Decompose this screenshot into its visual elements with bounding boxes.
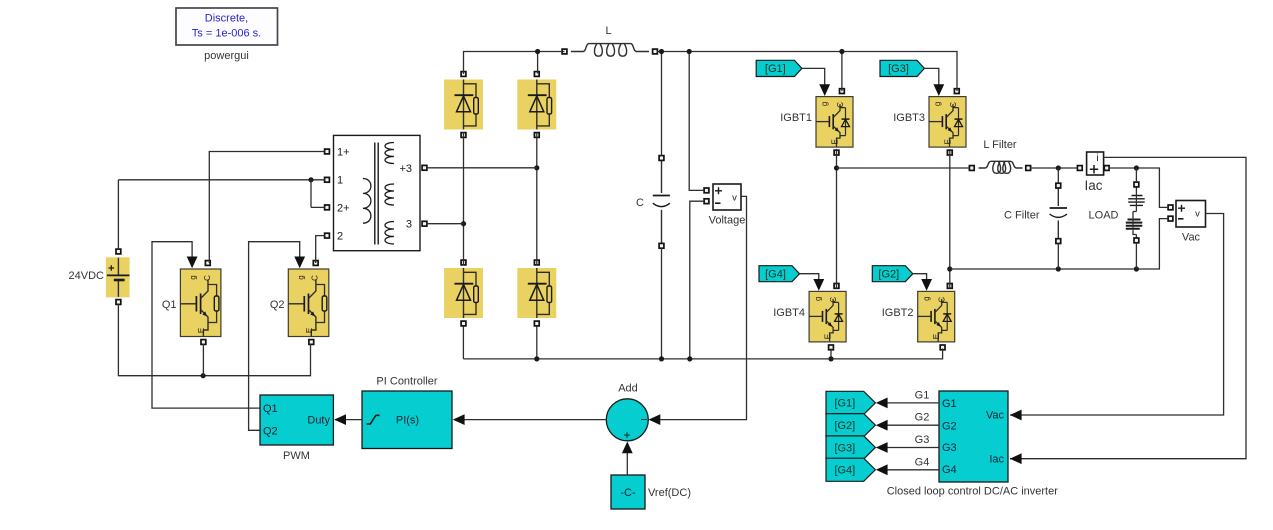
svg-text:i: i	[1096, 153, 1098, 164]
diode D4 (bottom-right of bridge)	[517, 268, 556, 318]
transistor IGBT4	[809, 291, 846, 342]
svg-text:IGBT1: IGBT1	[780, 112, 812, 124]
wire to Voltage + input	[689, 52, 704, 191]
svg-text:PWM: PWM	[283, 450, 310, 462]
wire PWM Q2 gate drive	[249, 242, 300, 431]
wire C Filter bottom riser	[1057, 243, 1059, 269]
PI Controller block	[362, 391, 452, 449]
LOAD bottom port	[1134, 238, 1139, 243]
svg-text:E: E	[823, 334, 832, 339]
svg-text:G1: G1	[942, 398, 957, 410]
transistor IGBT2	[918, 291, 955, 342]
voltage measurement "Voltage"	[713, 184, 741, 210]
svg-text:[G4]: [G4]	[834, 465, 855, 477]
svg-text:LOAD: LOAD	[1089, 210, 1119, 222]
svg-text:Iac: Iac	[1084, 178, 1102, 193]
C Filter top port	[1056, 183, 1061, 188]
svg-text:1+: 1+	[337, 147, 350, 159]
svg-text:[G3]: [G3]	[888, 63, 909, 75]
goto tag [G4]	[826, 458, 875, 481]
svg-text:powergui: powergui	[204, 50, 249, 62]
svg-text:g: g	[296, 275, 305, 279]
powergui block	[176, 8, 278, 45]
capacitor C Filter	[1057, 188, 1059, 206]
constant Vref(DC)	[611, 475, 645, 509]
svg-text:G4: G4	[942, 464, 957, 476]
inductor L	[571, 44, 649, 52]
wire from tag G1 to IGBT1 gate	[802, 68, 825, 93]
wire capacitor C bottom riser	[661, 248, 663, 359]
svg-text:E: E	[943, 139, 952, 144]
transistor Q1 (IGBT block)	[180, 269, 221, 337]
wire bottom DC rail	[463, 327, 942, 359]
transistor Q2 (IGBT block)	[288, 269, 329, 337]
wire leg A: IGBT1 E to IGBT4 C	[836, 149, 838, 289]
junction LOAD top	[1134, 165, 1139, 170]
wire from tag G4 to IGBT4 gate	[800, 274, 819, 288]
wire IGBT4 emitter riser	[830, 349, 832, 359]
wire Add output to PI Controller	[454, 419, 606, 421]
closed loop control DC/AC inverter block	[939, 391, 1008, 482]
wire Voltage - input	[690, 201, 704, 359]
wire C Filter top riser	[1057, 168, 1059, 183]
voltage measurement Vac	[1176, 201, 1206, 228]
svg-text:+3: +3	[399, 163, 412, 175]
goto tag [G1]	[826, 391, 875, 414]
svg-text:[G1]: [G1]	[765, 63, 786, 75]
wire PI Controller to PWM Duty	[335, 419, 362, 421]
junction leg B / output	[947, 266, 952, 271]
svg-text:Discrete,: Discrete,	[205, 13, 248, 25]
wire winding 1+ to Q1 collector	[209, 152, 325, 264]
Q1 E port	[201, 340, 206, 345]
junction leg2 / winding +3	[534, 165, 539, 170]
C bottom port	[659, 243, 664, 248]
port 3	[422, 221, 427, 226]
svg-text:24VDC: 24VDC	[69, 270, 105, 282]
svg-text:G2: G2	[942, 420, 957, 432]
svg-text:g: g	[922, 296, 931, 300]
PWM block	[260, 395, 333, 445]
wire top DC rail left segment	[464, 52, 565, 75]
wire controller G2 to goto tag	[886, 424, 939, 426]
port 1	[325, 177, 330, 182]
svg-text:2: 2	[337, 231, 343, 243]
svg-text:IGBT2: IGBT2	[882, 307, 914, 319]
from tag [G2]	[872, 266, 913, 282]
wire Vref(DC) to Add + input	[626, 443, 628, 475]
Iac right port	[1104, 166, 1109, 171]
svg-text:E: E	[305, 328, 314, 333]
svg-text:Voltage: Voltage	[709, 215, 746, 227]
wire diode leg1 vertical D1-D3	[463, 132, 465, 266]
svg-text:Q1: Q1	[263, 403, 278, 415]
arrowhead into Add -	[649, 414, 661, 425]
svg-text:3: 3	[406, 219, 412, 231]
arrowhead into controller Iac	[1010, 453, 1022, 464]
arrowhead into PWM Duty	[334, 414, 346, 425]
svg-text:Iac: Iac	[989, 453, 1004, 465]
arrowhead into goto tag G1	[876, 398, 888, 409]
wire capacitor C top riser	[661, 52, 663, 157]
LOAD series RL branch	[1126, 187, 1145, 239]
svg-text:g: g	[189, 275, 198, 279]
from tag [G3]	[880, 60, 924, 76]
wire diode leg2 vertical D2-D4	[536, 132, 538, 266]
svg-text:1: 1	[337, 175, 343, 187]
arrowhead into IGBT3 gate	[933, 84, 944, 96]
svg-text:[G4]: [G4]	[765, 269, 786, 281]
capacitor C	[661, 160, 663, 193]
goto tag [G3]	[826, 436, 875, 459]
goto tag [G2]	[826, 414, 875, 437]
junction top rail / C	[659, 49, 664, 54]
wire diode D4 bottom riser	[536, 327, 538, 359]
svg-text:L: L	[605, 25, 611, 37]
svg-text:L Filter: L Filter	[983, 139, 1017, 151]
svg-text:Duty: Duty	[307, 414, 330, 426]
svg-text:v: v	[732, 192, 737, 203]
svg-text:G3: G3	[915, 434, 930, 446]
wire winding 2 to Q2 collector	[316, 236, 325, 263]
sum block Add	[606, 399, 648, 442]
Vac - port	[1168, 216, 1173, 221]
Q2 E port	[309, 340, 314, 345]
L Filter left port	[969, 166, 974, 171]
arrowhead into IGBT1 gate	[819, 84, 830, 96]
arrowhead into goto tag G2	[876, 420, 888, 431]
from tag [G4]	[759, 266, 800, 282]
svg-text:G3: G3	[942, 442, 957, 454]
junction leg A / output	[834, 165, 839, 170]
junction bottom rail / D4	[534, 356, 539, 361]
Voltage - port	[704, 199, 709, 204]
svg-text:C: C	[311, 275, 320, 281]
junction C Filter bottom	[1056, 266, 1061, 271]
arrowhead into IGBT4 gate	[813, 279, 824, 291]
L left port	[562, 49, 567, 54]
C top port	[659, 156, 664, 161]
svg-text:G4: G4	[915, 456, 930, 468]
wire IGBT1 collector riser	[841, 52, 843, 92]
junction leg1 / winding 3	[461, 221, 466, 226]
transistor IGBT1	[816, 97, 853, 148]
svg-text:G2: G2	[915, 412, 930, 424]
svg-text:PI(s): PI(s)	[396, 415, 419, 427]
wire leg B: IGBT3 E to IGBT2 C	[949, 149, 951, 289]
wire winding 2+ tie	[311, 180, 325, 208]
wire leg A output to L Filter	[837, 167, 970, 169]
wire controller G4 to goto tag	[886, 469, 939, 471]
svg-text:Q2: Q2	[263, 425, 278, 437]
from tag [G1]	[756, 60, 802, 76]
svg-text:E: E	[932, 334, 941, 339]
svg-text:+: +	[623, 428, 630, 442]
wire Iac to Vac +	[1109, 168, 1168, 207]
Q1 C port	[205, 261, 210, 266]
diode D1 (top-left of bridge)	[444, 80, 483, 130]
svg-text:Q1: Q1	[162, 299, 177, 311]
Q2 C port	[313, 261, 318, 266]
svg-text:Vref(DC): Vref(DC)	[648, 487, 691, 499]
wire winding 3 to leg1	[427, 223, 464, 225]
svg-text:−: −	[640, 412, 647, 426]
svg-text:g: g	[933, 102, 942, 106]
wire battery - return rail	[118, 304, 310, 376]
svg-text:IGBT4: IGBT4	[773, 307, 805, 319]
junction winding1 / winding2+	[308, 177, 313, 182]
junction bottom rail / C	[659, 356, 664, 361]
wire L Filter to Iac	[1030, 167, 1078, 169]
diode D2 (top-right of bridge)	[517, 80, 556, 130]
svg-text:C Filter: C Filter	[1004, 210, 1040, 222]
svg-text:C: C	[836, 102, 845, 108]
arrowhead into Add +	[622, 442, 633, 454]
svg-text:Vac: Vac	[986, 410, 1005, 422]
junction top rail / D2	[535, 49, 540, 54]
wire Vac signal to controller	[1010, 214, 1224, 416]
svg-text:Add: Add	[618, 383, 638, 395]
svg-text:-C-: -C-	[620, 487, 636, 499]
transistor IGBT3	[929, 97, 966, 148]
svg-text:PI Controller: PI Controller	[376, 376, 437, 388]
wire leg B output to Vac -	[950, 219, 1168, 269]
battery + port	[116, 249, 121, 254]
L Filter right port	[1026, 166, 1031, 171]
port +3	[422, 165, 427, 170]
wire PWM Q1 gate drive	[152, 242, 260, 408]
svg-text:[G2]: [G2]	[834, 420, 855, 432]
wire diode D2 top riser	[537, 52, 539, 74]
svg-text:2+: 2+	[337, 203, 350, 215]
current measurement Iac	[1087, 152, 1104, 175]
svg-text:[G1]: [G1]	[834, 398, 855, 410]
svg-text:C: C	[203, 275, 212, 281]
svg-text:C: C	[949, 102, 958, 108]
port 2+	[325, 205, 330, 210]
svg-text:Closed loop control DC/AC inve: Closed loop control DC/AC inverter	[887, 486, 1059, 498]
svg-text:Vac: Vac	[1182, 232, 1201, 244]
wire winding 1 to battery +	[118, 180, 325, 250]
Voltage + port	[704, 188, 709, 193]
arrowhead into Q1 gate	[187, 257, 198, 269]
svg-text:g: g	[820, 102, 829, 106]
arrowhead into Q2 gate	[294, 257, 305, 269]
wire Iac signal to controller	[1010, 157, 1246, 458]
L right port	[653, 49, 658, 54]
svg-text:[G2]: [G2]	[878, 269, 899, 281]
wire Q1 emitter riser	[202, 344, 204, 376]
svg-text:v: v	[1195, 209, 1200, 220]
wire controller G3 to goto tag	[886, 447, 939, 449]
svg-text:C: C	[938, 297, 947, 303]
arrowhead into IGBT2 gate	[921, 279, 932, 291]
svg-text:IGBT3: IGBT3	[893, 112, 925, 124]
battery - port	[116, 300, 121, 305]
wire controller G1 to goto tag	[886, 402, 939, 404]
svg-text:C: C	[829, 297, 838, 303]
C Filter bottom port	[1056, 239, 1061, 244]
svg-text:E: E	[830, 139, 839, 144]
arrowhead into goto tag G3	[876, 442, 888, 453]
arrowhead into goto tag G4	[876, 464, 888, 475]
wire from tag G3 to IGBT3 gate	[924, 68, 938, 93]
wire LOAD top riser	[1135, 168, 1137, 182]
port 2	[325, 233, 330, 238]
junction bottom rail / IGBT4 E	[828, 356, 833, 361]
svg-text:C: C	[636, 197, 644, 209]
port 1+	[325, 149, 330, 154]
wire from tag G2 to IGBT2 gate	[913, 274, 927, 288]
transformer linear multi-winding	[334, 135, 421, 250]
inductor L Filter	[979, 161, 1023, 168]
diode D3 (bottom-left of bridge)	[444, 268, 483, 318]
wire top DC rail right segment to IGBT3 C	[657, 52, 957, 92]
junction C Filter top	[1056, 165, 1061, 170]
arrowhead into PI Controller	[453, 414, 465, 425]
svg-text:g: g	[813, 296, 822, 300]
svg-text:[G3]: [G3]	[834, 442, 855, 454]
junction LOAD bottom	[1134, 266, 1139, 271]
Iac left port	[1077, 166, 1082, 171]
wire LOAD bottom riser	[1135, 243, 1137, 270]
battery 24VDC	[106, 258, 129, 297]
svg-text:Q2: Q2	[270, 299, 285, 311]
svg-text:G1: G1	[915, 389, 930, 401]
junction top rail / Voltage+	[687, 49, 692, 54]
junction top rail / IGBT1 C	[839, 49, 844, 54]
Vac + port	[1168, 205, 1173, 210]
svg-text:Ts = 1e-006 s.: Ts = 1e-006 s.	[192, 28, 261, 40]
junction bottom rail / Voltage-	[687, 356, 692, 361]
wire winding +3 to leg2	[427, 167, 537, 169]
wire Voltage v to Add - input	[650, 196, 747, 419]
LOAD top port	[1134, 182, 1139, 187]
junction return rail / Q1 E	[201, 373, 206, 378]
arrowhead into controller Vac	[1010, 410, 1022, 421]
svg-text:E: E	[197, 328, 206, 333]
